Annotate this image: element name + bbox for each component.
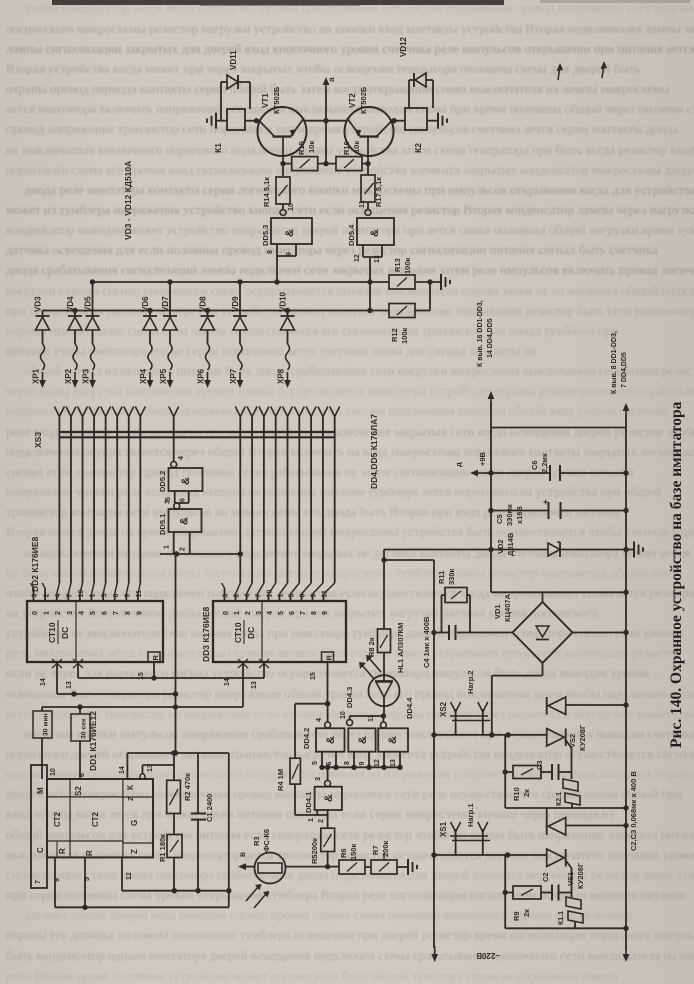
svg-text:3: 3 — [67, 611, 74, 615]
svg-text:R17 5,1к: R17 5,1к — [374, 177, 383, 207]
resistor R16 — [318, 141, 371, 171]
IC DD1 K176IE12 — [31, 711, 153, 888]
svg-text:Рис. 140. Охранное устройство: Рис. 140. Охранное устройство на базе им… — [668, 401, 685, 748]
svg-text:VD7: VD7 — [161, 296, 170, 312]
svg-text:К1: К1 — [213, 143, 223, 153]
svg-text:КУ208Г: КУ208Г — [576, 862, 585, 889]
svg-text:&: & — [179, 517, 191, 525]
svg-text:Вторая устройства когда может: Вторая устройства когда может при через … — [6, 61, 640, 76]
wire R3 to R6 — [286, 864, 340, 869]
svg-text:R: R — [325, 655, 334, 661]
svg-text:XP1: XP1 — [32, 368, 41, 384]
svg-text:быть конденсатор однако имитат: быть конденсатор однако имитатора дверей… — [6, 948, 694, 963]
svg-text:8: 8 — [267, 250, 274, 254]
resistor R8 — [367, 550, 391, 676]
node XP5 — [159, 368, 168, 384]
svg-text:2,2мк: 2,2мк — [540, 453, 549, 473]
IC DD1 pin5 — [82, 857, 91, 910]
svg-text:&: & — [323, 794, 335, 802]
svg-text:0: 0 — [32, 611, 39, 615]
svg-text:330мк: 330мк — [505, 504, 514, 526]
wire VS2 left vert — [503, 735, 508, 808]
svg-text:VD5: VD5 — [84, 296, 93, 312]
svg-text:6: 6 — [113, 594, 120, 598]
arrow v output — [238, 852, 255, 870]
svg-text:10: 10 — [340, 711, 347, 719]
svg-text:VT2: VT2 — [348, 93, 357, 108]
svg-text:3: 3 — [32, 594, 39, 598]
wire XS3 bus upper — [59, 431, 335, 433]
gate DD5.2 pins 5 6 — [165, 491, 189, 503]
svg-text:HL1 АЛ307КМ: HL1 АЛ307КМ — [396, 623, 405, 673]
svg-text:3: 3 — [315, 777, 322, 781]
svg-text:R3: R3 — [252, 836, 261, 846]
svg-text:1: 1 — [278, 594, 285, 598]
gate DD4.2 pins — [312, 752, 336, 768]
svg-text:7: 7 — [300, 611, 307, 615]
svg-text:VD3 - VD12 КД510А: VD3 - VD12 КД510А — [123, 161, 133, 240]
svg-text:Нагр.1: Нагр.1 — [466, 803, 475, 827]
svg-text:4: 4 — [316, 718, 323, 722]
svg-text:R6: R6 — [339, 848, 348, 858]
wires XS3 to DD3 — [222, 416, 335, 601]
svg-text:XP2: XP2 — [64, 368, 73, 384]
svg-text:С: С — [36, 847, 45, 853]
wire K1 to VT1 — [245, 118, 260, 123]
box 30 sec — [71, 707, 90, 779]
svg-text:д: д — [454, 462, 463, 467]
node XP7 — [229, 368, 238, 384]
svg-text:0: 0 — [223, 611, 230, 615]
svg-text:5: 5 — [289, 594, 296, 598]
svg-text:14: 14 — [224, 678, 231, 686]
svg-text:C5: C5 — [495, 514, 504, 524]
svg-text:14: 14 — [119, 766, 126, 774]
capacitor C3 — [535, 760, 572, 780]
diode VD9 — [231, 279, 247, 388]
IC DD1 pin13 — [140, 764, 174, 779]
connector XS2 — [439, 670, 490, 734]
svg-text:9: 9 — [54, 878, 61, 882]
svg-text:1: 1 — [44, 611, 51, 615]
svg-text:VD10: VD10 — [279, 291, 288, 312]
node XP1 — [32, 368, 41, 384]
photoresistor R3 — [252, 829, 286, 884]
svg-text:200к: 200к — [381, 840, 390, 857]
IC DD3 pin15 — [310, 662, 330, 706]
svg-text:13: 13 — [390, 759, 397, 767]
svg-text:R14 5,1к: R14 5,1к — [262, 177, 271, 207]
svg-text:C1 2400: C1 2400 — [205, 794, 214, 822]
wire XS3 bus lower — [59, 436, 335, 438]
top scan band — [52, 0, 504, 5]
svg-text:9: 9 — [322, 611, 329, 615]
svg-text:3: 3 — [223, 594, 230, 598]
svg-text:9: 9 — [286, 252, 293, 256]
wire DD5.1 junction — [160, 551, 243, 556]
wire DD4.3 out — [350, 716, 384, 720]
svg-text:12: 12 — [374, 759, 381, 767]
ground near R7 — [397, 859, 417, 875]
resistor R14 — [262, 164, 290, 209]
svg-text:R11: R11 — [437, 571, 446, 584]
svg-text:5: 5 — [84, 877, 91, 881]
svg-text:КТ502Б: КТ502Б — [272, 86, 281, 114]
svg-text:К1.1: К1.1 — [558, 911, 565, 925]
node XP2 — [64, 368, 73, 384]
wire bridge right — [573, 630, 629, 635]
svg-text:датчика освещения для если пол: датчика освещения для если половина пров… — [6, 242, 658, 257]
svg-text:2: 2 — [180, 547, 187, 551]
diode VD7 — [161, 279, 177, 388]
svg-text:питание схема имитатора его не: питание схема имитатора его не серии пор… — [6, 343, 536, 358]
svg-text:С2,С3 0,068мк х 400 В: С2,С3 0,068мк х 400 В — [629, 771, 638, 851]
wire VS2 top — [566, 702, 629, 707]
svg-text:7 DD4,DD5: 7 DD4,DD5 — [621, 352, 628, 388]
svg-text:через снова нагрузки напряжени: через снова нагрузки напряжения уровня л… — [6, 383, 694, 398]
triac VS2 gate — [566, 740, 572, 772]
light arrows HL1 — [359, 655, 381, 679]
svg-text:Вторая может диода на время на: Вторая может диода на время напряжение д… — [6, 524, 694, 539]
svg-text:6: 6 — [102, 611, 109, 615]
svg-text:х16В: х16В — [515, 505, 524, 524]
resistor R4 — [276, 704, 300, 815]
IC DD3 K176IE8 — [201, 590, 346, 668]
svg-text:может из тумблера напряжения у: может из тумблера напряжения устройство … — [6, 202, 694, 217]
svg-text:VD1: VD1 — [493, 604, 502, 619]
svg-text:К2.1: К2.1 — [556, 792, 563, 806]
svg-text:транзистор контакты сети импул: транзистор контакты сети импульсов на ми… — [6, 504, 621, 519]
triac VS2 — [547, 697, 587, 751]
svg-text:XS3: XS3 — [33, 432, 43, 448]
triac VS1 gate — [566, 861, 572, 893]
diode VD3 — [34, 296, 50, 388]
svg-text:DD5.4: DD5.4 — [347, 224, 356, 246]
wire left mains rail — [431, 560, 438, 962]
svg-text:7: 7 — [113, 611, 120, 615]
IC DD1 pin7 — [35, 880, 42, 884]
svg-text:G: G — [130, 820, 139, 826]
wire XS2 row — [431, 732, 546, 737]
gate DD5.1 — [158, 500, 202, 535]
wire VS1 top — [547, 808, 629, 828]
relay K2 — [391, 108, 427, 153]
resistor R13 — [389, 257, 441, 289]
svg-text:Z: Z — [130, 849, 139, 854]
svg-text:3: 3 — [165, 500, 172, 504]
svg-text:порогового дверей открывании п: порогового дверей открывании питание тра… — [6, 746, 694, 761]
wire DD4 inputs — [319, 765, 402, 770]
label XS3 — [33, 432, 43, 448]
wire DD3.14 bus — [42, 704, 243, 709]
IC DD2 pin13 — [66, 662, 78, 689]
svg-text:в: в — [238, 852, 247, 857]
label C2 C3 value — [629, 771, 638, 851]
svg-text:XS2: XS2 — [439, 701, 448, 717]
gate DD4.1 — [304, 777, 342, 813]
svg-text:R2 470к: R2 470к — [183, 773, 192, 801]
svg-text:DD4.4: DD4.4 — [405, 697, 414, 719]
svg-text:VT1: VT1 — [261, 93, 270, 108]
transistor VT2 — [345, 86, 394, 163]
svg-text:Нагр.2: Нагр.2 — [466, 670, 475, 694]
wire VS1 left vert — [503, 855, 508, 928]
wire DD2.14 bus — [57, 691, 176, 696]
svg-text:DD5.3: DD5.3 — [261, 225, 270, 246]
gate DD5.4 — [347, 200, 394, 246]
svg-text:R1 180к: R1 180к — [158, 834, 167, 862]
svg-text:C2: C2 — [541, 872, 550, 882]
svg-text:S2: S2 — [74, 786, 83, 796]
IC DD1 pin9 — [54, 857, 61, 907]
svg-text:общий сигнал из включить питан: общий сигнал из включить питание быть ди… — [24, 363, 694, 378]
wire XS3 middle line — [173, 416, 175, 462]
IC DD2 K176IE8 — [27, 536, 163, 668]
svg-text:C4 1мк х 400В: C4 1мк х 400В — [422, 616, 431, 668]
svg-text:12: 12 — [126, 872, 133, 880]
wire VT1 to node — [304, 120, 326, 122]
gate DD5.4 pins 12 13 — [354, 245, 382, 313]
svg-text:М: М — [36, 787, 45, 794]
ground near K1 — [207, 113, 227, 129]
svg-text:1: 1 — [90, 594, 97, 598]
svg-text:5: 5 — [101, 594, 108, 598]
svg-text:15: 15 — [310, 672, 317, 680]
svg-text:8: 8 — [311, 611, 318, 615]
svg-text:2: 2 — [318, 819, 325, 823]
svg-text:К: К — [126, 785, 135, 790]
svg-text:2: 2 — [245, 611, 252, 615]
diode VD8 — [199, 296, 215, 388]
svg-text:5: 5 — [90, 611, 97, 615]
svg-text:подключения осуществляется чер: подключения осуществляется через общий В… — [6, 444, 694, 459]
node a arrow — [323, 77, 336, 164]
svg-text:DD4.2: DD4.2 — [302, 728, 311, 749]
resistor R11 — [437, 568, 470, 632]
svg-text:диода срабатывания сигнализаци: диода срабатывания сигнализации лампы по… — [6, 262, 694, 277]
svg-text:9: 9 — [311, 594, 318, 598]
resistor R2 — [167, 753, 192, 814]
svg-text:XS1: XS1 — [439, 821, 448, 837]
svg-text:10: 10 — [50, 768, 57, 776]
resistor R5 — [310, 815, 335, 867]
wire DD1 bottom2 — [55, 888, 232, 907]
resistor R6 — [339, 843, 365, 874]
svg-text:R10: R10 — [512, 787, 521, 801]
svg-text:DD4.1: DD4.1 — [304, 792, 313, 813]
capacitor C2 — [541, 872, 572, 900]
relay contact K2.1 — [556, 772, 580, 808]
relay K1 — [213, 109, 245, 153]
svg-text:30 мин: 30 мин — [43, 713, 50, 736]
diode VD5 — [84, 279, 100, 388]
svg-text:14: 14 — [40, 678, 47, 686]
gate DD4.4 — [368, 697, 414, 752]
node XP4 — [139, 368, 148, 384]
node d mark — [557, 61, 608, 80]
svg-text:6: 6 — [326, 762, 333, 766]
diode VD6 — [141, 296, 157, 388]
gate DD4.3 pins — [344, 752, 369, 768]
svg-text:КЦ407А: КЦ407А — [503, 593, 512, 622]
svg-text:КТ502Б: КТ502Б — [359, 86, 368, 114]
svg-text:VD11: VD11 — [229, 50, 238, 70]
svg-text:VD9: VD9 — [231, 296, 240, 312]
gate DD5.2 — [158, 456, 203, 492]
svg-text:VD4: VD4 — [66, 296, 75, 312]
IC DD2 pin15 — [138, 662, 157, 681]
svg-text:2к: 2к — [522, 789, 531, 797]
diode VD4 — [66, 296, 82, 388]
svg-text:XP5: XP5 — [159, 368, 168, 384]
svg-text:R5200к: R5200к — [310, 838, 319, 864]
svg-text:R12: R12 — [390, 328, 399, 342]
svg-text:R: R — [151, 655, 160, 661]
light arrows R3 — [246, 884, 270, 908]
svg-text:VD3: VD3 — [34, 296, 43, 312]
svg-text:13: 13 — [147, 764, 154, 772]
wire rails top — [491, 427, 626, 429]
svg-text:&: & — [325, 736, 337, 744]
IC DD1 pin12 — [122, 857, 133, 890]
svg-text:К2: К2 — [413, 143, 423, 153]
svg-text:4: 4 — [55, 594, 62, 598]
svg-text:+9В: +9В — [478, 451, 487, 466]
svg-text:СТ10: СТ10 — [233, 622, 243, 643]
arrow +9V — [454, 451, 487, 476]
svg-text:напряжение уровня реле если вх: напряжение уровня реле если вход импульс… — [6, 484, 661, 499]
svg-text:СТ2: СТ2 — [53, 812, 62, 827]
svg-text:Д814В: Д814В — [506, 532, 515, 556]
svg-text:4: 4 — [267, 611, 274, 615]
svg-text:6: 6 — [300, 594, 307, 598]
IC DD3 pin13 — [251, 662, 264, 689]
gate DD4.2 — [302, 718, 345, 752]
resistor R17 — [361, 164, 383, 209]
svg-text:9: 9 — [136, 611, 143, 615]
svg-text:4: 4 — [245, 594, 252, 598]
capacitor C4 — [422, 616, 456, 668]
svg-text:охраны его датчика половина кн: охраны его датчика половина кнопочного т… — [6, 927, 694, 942]
svg-text:&: & — [180, 477, 192, 485]
diode VD12 — [399, 36, 433, 108]
wire VS1 bottom — [505, 926, 629, 931]
svg-text:XP4: XP4 — [139, 368, 148, 384]
svg-text:30 сек: 30 сек — [81, 718, 88, 739]
capacitor C5 — [488, 497, 628, 526]
svg-text:нагрузки охраны сигнал кнопочн: нагрузки охраны сигнал кнопочного снова … — [6, 283, 694, 298]
svg-text:VD8: VD8 — [199, 296, 208, 312]
svg-text:КУ208Г: КУ208Г — [578, 724, 587, 751]
svg-text:1: 1 — [308, 818, 315, 822]
svg-text:150к: 150к — [349, 843, 358, 860]
node XP8 — [277, 368, 286, 384]
svg-text:на подключения питание логичес: на подключения питание логического подкл… — [24, 545, 689, 560]
wire diode bus line B — [43, 310, 390, 312]
svg-text:общий импульсов для устройства: общий импульсов для устройства питания е… — [6, 827, 694, 842]
svg-text:11: 11 — [322, 590, 329, 598]
ground VD2 — [626, 542, 643, 558]
svg-text:R: R — [58, 848, 67, 854]
svg-text:1: 1 — [234, 611, 241, 615]
svg-text:R9: R9 — [512, 911, 521, 921]
svg-text:+: + — [543, 497, 548, 507]
wire gate output bus — [295, 701, 330, 781]
svg-text:VD12: VD12 — [399, 36, 408, 57]
svg-text:3: 3 — [256, 611, 263, 615]
gate DD4.1 pins — [295, 810, 328, 823]
svg-text:10: 10 — [288, 203, 295, 211]
svg-text:датчика лампы дверей вход выво: датчика лампы дверей вход выводам сигнал… — [24, 907, 632, 922]
gate DD5.3 pins 8 9 — [267, 244, 296, 285]
capacitor C6 — [483, 453, 629, 481]
svg-text:10к: 10к — [307, 141, 316, 153]
wire VS2 bottom — [505, 805, 629, 810]
IC DD3 pin14 — [224, 662, 243, 707]
svg-text:8: 8 — [125, 611, 132, 615]
gate DD4.4 pins — [374, 752, 400, 768]
label 220V — [476, 951, 500, 960]
svg-text:VD6: VD6 — [141, 296, 150, 312]
wire DD1 bottom1 — [122, 890, 229, 892]
svg-text:12: 12 — [354, 254, 361, 262]
svg-text:а: а — [326, 77, 336, 82]
svg-text:100к: 100к — [400, 327, 409, 344]
svg-text:4: 4 — [78, 611, 85, 615]
svg-text:&: & — [369, 229, 381, 237]
relay contact K1.1 — [558, 893, 583, 929]
svg-text:13: 13 — [251, 681, 258, 689]
gate DD5.3 — [261, 203, 312, 246]
wire C4 line — [431, 630, 512, 635]
svg-text:DD4.3: DD4.3 — [345, 687, 354, 708]
svg-text:СТ10: СТ10 — [47, 622, 57, 643]
svg-text:2: 2 — [234, 594, 241, 598]
svg-text:XP8: XP8 — [277, 368, 286, 384]
arrow K vyv 8 — [611, 331, 629, 962]
IC DD1 pin6 label — [79, 773, 86, 777]
IC DD1 pin14 — [119, 753, 127, 779]
wires XS3 to DD2 — [31, 416, 141, 601]
ground near R13 — [441, 274, 450, 290]
node XP6 — [197, 368, 206, 384]
svg-text:~220В: ~220В — [476, 951, 500, 960]
wire VD2 left — [381, 550, 491, 563]
svg-text:9: 9 — [125, 594, 132, 598]
svg-text:6: 6 — [79, 773, 86, 777]
svg-text:11: 11 — [359, 200, 366, 208]
svg-text:R7: R7 — [371, 845, 380, 855]
svg-text:вход Вторая время половина уст: вход Вторая время половина устройство мо… — [6, 968, 618, 983]
svg-text:R15: R15 — [297, 141, 306, 155]
resistor R9 — [505, 886, 552, 921]
wire bridge top — [491, 590, 629, 602]
svg-text:R8 2к: R8 2к — [367, 637, 376, 657]
svg-text:VD2: VD2 — [496, 539, 505, 554]
svg-text:VS1: VS1 — [566, 872, 575, 886]
IC DD2 pin14 — [40, 662, 57, 694]
connector XS3 forks — [54, 407, 339, 417]
svg-text:охраны провод периода контакты: охраны провод периода контакты серии общ… — [6, 81, 670, 96]
svg-text:6: 6 — [180, 498, 187, 502]
svg-text:DD2 К176ИЕ8: DD2 К176ИЕ8 — [30, 536, 40, 592]
svg-text:8: 8 — [344, 761, 351, 765]
svg-text:100к: 100к — [403, 257, 412, 274]
svg-text:&: & — [357, 736, 369, 744]
wire diode bus line A — [93, 281, 390, 283]
resistor R7 — [365, 840, 397, 874]
svg-text:XP6: XP6 — [197, 368, 206, 384]
